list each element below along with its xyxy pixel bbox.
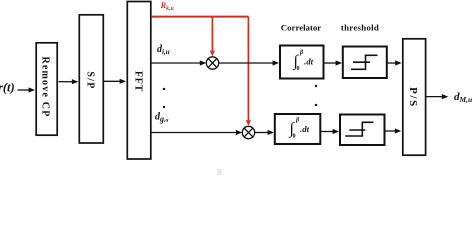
wire r(t) to Remove CP with arrowhead: [18, 87, 36, 92]
svg-text:Remove CP: Remove CP: [40, 56, 51, 117]
wire red branch down to multiplier 1 with arrowhead: [210, 17, 215, 57]
svg-text:.dt: .dt: [304, 57, 314, 67]
svg-text:.dt: .dt: [300, 124, 310, 134]
svg-text:dM,u: dM,u: [454, 91, 472, 104]
svg-text:dg,u: dg,u: [155, 112, 168, 124]
block threshold U4 (hard limiter): [340, 115, 385, 146]
svg-text:0: 0: [297, 65, 300, 72]
svg-text:0: 0: [293, 133, 296, 140]
wire P/S to output with arrowhead: [426, 94, 448, 99]
block P/S: [403, 39, 426, 155]
wire FFT to multiplier 2 with arrowhead: [152, 130, 243, 135]
wire S/P to FFT with arrowhead: [104, 79, 126, 84]
wire threshold 1 to P/S with arrowhead: [387, 60, 402, 65]
vertical ellipsis dots between correlators: [315, 85, 317, 106]
svg-text:P/S: P/S: [407, 87, 419, 108]
vertical ellipsis dots after FFT: [163, 88, 165, 108]
wire multiplier 1 to correlator 1 with arrowhead: [219, 60, 279, 65]
svg-text:β: β: [299, 49, 304, 56]
wire red branch down to multiplier 2 with arrowhead: [246, 17, 251, 126]
block FFT: [127, 2, 151, 160]
wire red reference feed horizontal: [152, 16, 249, 18]
block threshold U2 (hard limiter): [343, 47, 387, 79]
block Remove CP: [36, 43, 57, 135]
wire Remove CP to S/P with arrowhead: [59, 79, 79, 84]
block correlator U1 (integral): [280, 46, 324, 79]
block S/P: [79, 15, 103, 143]
multiplier M1 (circle with X): [206, 57, 218, 69]
wire threshold 2 to P/S with arrowhead: [385, 128, 401, 133]
svg-text:β: β: [295, 117, 300, 124]
svg-text:S/P: S/P: [84, 71, 95, 89]
svg-text:threshold: threshold: [341, 23, 379, 33]
wire multiplier 2 to correlator 2 with arrowhead: [255, 130, 274, 135]
svg-text:Correlator: Correlator: [281, 23, 321, 33]
svg-text:di,u: di,u: [157, 44, 170, 56]
svg-text:Rk,u: Rk,u: [160, 0, 175, 12]
block correlator U3 (integral): [275, 114, 321, 144]
svg-text:FFT: FFT: [133, 71, 144, 92]
faint caption remnant at bottom edge: [217, 169, 222, 175]
wire correlator 1 to threshold 1 with arrowhead: [324, 60, 343, 65]
wire FFT to multiplier 1 with arrowhead: [152, 60, 207, 65]
multiplier M2 (circle with X): [242, 126, 254, 138]
wire correlator 2 to threshold 2 with arrowhead: [320, 129, 339, 134]
svg-text:r(t): r(t): [0, 81, 15, 95]
